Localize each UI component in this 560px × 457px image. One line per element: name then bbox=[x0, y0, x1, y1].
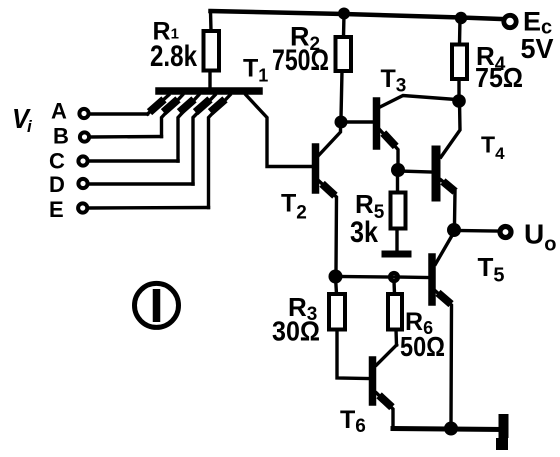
wire top rail Ec bbox=[211, 11, 503, 19]
wire T4 collector bbox=[441, 101, 460, 157]
junction dot rail R4 bbox=[455, 12, 467, 24]
wire input B bbox=[91, 135, 162, 139]
T4 emitter arrow bbox=[446, 184, 452, 189]
wire to Uo terminal bbox=[454, 229, 497, 233]
wire R1 bottom bbox=[208, 71, 211, 89]
resistor R3 bbox=[329, 294, 345, 330]
svg-text:2.8k: 2.8k bbox=[150, 40, 197, 73]
transistor T5 bar bbox=[428, 257, 436, 302]
T1 emitter E arrow bbox=[214, 102, 223, 110]
wire input A bbox=[90, 112, 148, 115]
resistor R2 bbox=[336, 37, 352, 71]
terminal B bbox=[80, 132, 89, 141]
transistor T2 bar bbox=[312, 147, 320, 190]
T4 emitter bbox=[441, 180, 455, 224]
junction node T3 emitter / T4 base / R5 bbox=[391, 163, 405, 177]
T1 collector wire to T2 base bbox=[246, 95, 312, 167]
junction dot bottom rail T5 emitter bbox=[444, 422, 458, 436]
svg-text:B: B bbox=[53, 124, 69, 149]
T1 emitter B bbox=[162, 95, 183, 137]
wire input C bbox=[89, 159, 178, 162]
svg-text:3k: 3k bbox=[350, 216, 378, 249]
T3 collector bbox=[380, 96, 456, 108]
terminal E bbox=[78, 203, 87, 212]
wire R4 top bbox=[458, 18, 462, 45]
svg-text:A: A bbox=[51, 99, 67, 124]
T5 emitter bbox=[436, 291, 452, 424]
wire R6 bottom bbox=[394, 330, 398, 346]
wire T3 base bbox=[341, 120, 373, 123]
T6 emitter bbox=[377, 393, 394, 427]
transistor T4 bar bbox=[432, 150, 441, 197]
T3 emitter bbox=[380, 130, 398, 165]
terminal Uo bbox=[500, 227, 511, 238]
svg-text:5V: 5V bbox=[521, 33, 554, 64]
T6 collector bbox=[377, 345, 397, 365]
wire R3 bottom to T6 base bbox=[337, 330, 368, 379]
resistor R1 bbox=[204, 31, 220, 71]
wire R3 top bbox=[336, 277, 337, 294]
svg-text:C: C bbox=[49, 149, 65, 174]
T1 emitter B arrow bbox=[167, 102, 176, 110]
wire R6 top bbox=[392, 281, 396, 294]
T2 collector bbox=[319, 119, 341, 155]
transistor T3 bar bbox=[373, 101, 381, 146]
wire R5 top bbox=[396, 170, 399, 193]
wire node row bbox=[336, 275, 392, 279]
wire T4 base bbox=[398, 171, 431, 172]
transistor T6 bar bbox=[369, 360, 377, 402]
circled numeral I bbox=[135, 283, 179, 327]
junction node output bbox=[447, 223, 461, 237]
T1 emitter C arrow bbox=[183, 102, 192, 110]
wire input D bbox=[89, 182, 193, 185]
wire R2 top bbox=[342, 14, 346, 37]
T5 base wire bbox=[394, 275, 429, 279]
wire input E bbox=[89, 206, 209, 210]
svg-text:D: D bbox=[49, 172, 65, 197]
wire R5 bottom bbox=[395, 229, 398, 252]
terminal C bbox=[78, 156, 87, 165]
svg-text:75Ω: 75Ω bbox=[475, 62, 523, 93]
resistor R6 bbox=[388, 294, 402, 330]
T1 emitter D arrow bbox=[199, 102, 208, 110]
junction node R4 / T3 collector / T4 collector bbox=[452, 94, 466, 108]
wire R4 bottom bbox=[457, 79, 460, 96]
terminal Ec bbox=[504, 15, 516, 27]
ground bottom right plate bbox=[499, 414, 509, 438]
transistor T1 base bar bbox=[159, 87, 259, 95]
wire R2 bottom bbox=[341, 71, 342, 118]
svg-text:30Ω: 30Ω bbox=[272, 316, 320, 347]
resistor R4 bbox=[452, 45, 467, 80]
resistor R5 bbox=[391, 193, 406, 229]
svg-text:E: E bbox=[49, 197, 64, 222]
T6 emitter arrow bbox=[382, 398, 389, 405]
T2 emitter arrow bbox=[325, 187, 332, 194]
wire R1 top bbox=[209, 11, 213, 31]
T1 emitter A bbox=[148, 95, 169, 114]
junction node T2 emitter / R3 bbox=[329, 270, 343, 284]
svg-text:50Ω: 50Ω bbox=[400, 331, 445, 362]
terminal A bbox=[79, 109, 88, 118]
T1 emitter C bbox=[178, 95, 199, 161]
ground under R5 bbox=[382, 251, 412, 258]
ground bottom right lower mark bbox=[496, 438, 508, 450]
T5 collector bbox=[436, 233, 454, 264]
junction dot rail R2 bbox=[338, 8, 350, 20]
terminal D bbox=[78, 179, 87, 188]
T3 emitter arrow bbox=[386, 136, 393, 144]
svg-text:750Ω: 750Ω bbox=[272, 44, 329, 77]
T2 emitter bbox=[319, 181, 337, 270]
wire bottom rail bbox=[393, 429, 502, 430]
junction node T2 collector / T3 base bbox=[335, 116, 348, 129]
T5 emitter arrow bbox=[441, 296, 448, 302]
T1 emitter A arrow bbox=[153, 102, 162, 110]
junction ring R6 node bbox=[390, 273, 398, 281]
T1 emitter D bbox=[193, 95, 215, 184]
T1 emitter E bbox=[209, 95, 231, 208]
